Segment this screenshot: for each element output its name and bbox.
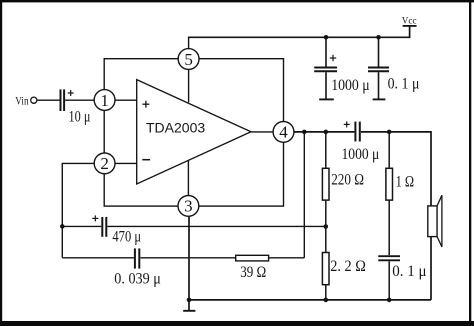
junction dot output riser xyxy=(302,130,307,135)
wire 220 branch upper xyxy=(325,132,327,168)
svg-text:1 Ω: 1 Ω xyxy=(396,173,414,191)
ground bar under C1 xyxy=(319,98,334,100)
wire C1 lower lead xyxy=(325,72,327,98)
input terminal circle xyxy=(31,97,37,103)
junction dot R220 R2.2 tee xyxy=(324,224,329,229)
plus sign C3 xyxy=(68,90,74,96)
wire riser to output row xyxy=(303,132,305,258)
svg-text:5: 5 xyxy=(184,50,193,69)
wire 470u row left xyxy=(62,225,101,227)
speaker cone xyxy=(437,195,442,247)
border bottom band xyxy=(0,321,474,326)
wire op-amp bottom edge to pin3 xyxy=(187,161,189,196)
border right xyxy=(469,0,471,326)
wire speaker bottom lead xyxy=(430,237,432,300)
wire C1 branch from rail xyxy=(325,37,327,66)
capacitor C2 0.1u plates xyxy=(368,68,389,72)
capacitor C7 0.1u plates xyxy=(378,256,400,260)
wire 1ohm branch upper xyxy=(388,132,390,168)
resistor R2.2 body xyxy=(322,253,329,285)
wire R2.2 to bottom row xyxy=(325,285,327,300)
svg-text:220 Ω: 220 Ω xyxy=(331,172,364,189)
pin circle 4 xyxy=(273,121,294,142)
capacitor C1 1000u plates xyxy=(314,68,337,72)
wire R1ohm to C7 xyxy=(388,200,390,255)
svg-text:1: 1 xyxy=(100,91,109,110)
speaker body rectangle xyxy=(428,206,437,237)
junction dot bottom 2.2 xyxy=(324,298,329,303)
capacitor C4 470u plates xyxy=(102,217,106,237)
svg-text:2: 2 xyxy=(100,154,109,173)
wire C6 to speaker corner xyxy=(361,132,431,206)
wire node2 to op-amp minus xyxy=(115,162,137,164)
pin circle 1 xyxy=(94,90,115,111)
wire C5 to R39 xyxy=(140,257,235,259)
junction dot feedback tee xyxy=(60,224,65,229)
wire output row apex to node4 xyxy=(251,131,273,133)
wire C7 to bottom row xyxy=(388,261,390,300)
svg-text:TDA2003: TDA2003 xyxy=(146,120,205,136)
resistor R39 body xyxy=(236,255,269,261)
plus input sign xyxy=(142,101,149,108)
wire Vin to C3 xyxy=(37,99,60,101)
resistor R220 body xyxy=(322,168,329,200)
wire 0.039u row left xyxy=(62,257,134,259)
wire node4 to C6 xyxy=(294,131,355,133)
svg-text:3: 3 xyxy=(184,197,193,216)
junction dot output 220 branch xyxy=(324,130,329,135)
wire bottom ground row xyxy=(189,299,431,301)
wire top supply rail with corner to Vcc xyxy=(188,26,410,37)
svg-text:Vin: Vin xyxy=(15,94,29,107)
capacitor C3 10u plates xyxy=(61,89,65,111)
ground bar under node3 xyxy=(183,310,195,312)
border left xyxy=(0,0,2,326)
wire 470u row right to R junction xyxy=(107,225,325,227)
minus input sign xyxy=(142,159,150,161)
svg-text:470 μ: 470 μ xyxy=(112,228,141,246)
svg-text:0. 1 μ: 0. 1 μ xyxy=(392,263,426,281)
op-amp U1 triangle xyxy=(137,80,251,184)
svg-text:1000 μ: 1000 μ xyxy=(342,146,380,163)
wire pin5 to op-amp top edge xyxy=(188,69,190,102)
wire C2 lower lead xyxy=(378,72,380,98)
plus sign C1 xyxy=(330,55,336,61)
junction dot rail C2 xyxy=(376,35,381,40)
wire C2 branch from rail xyxy=(378,37,380,66)
junction dot rail C1 xyxy=(324,35,329,40)
svg-text:1000 μ: 1000 μ xyxy=(331,77,370,94)
capacitor C5 0.039u plates xyxy=(135,248,139,268)
wire node3 riser down xyxy=(188,216,190,310)
border top xyxy=(0,0,474,2)
wire node1 to op-amp plus xyxy=(115,99,137,101)
resistor R1ohm body xyxy=(386,168,393,200)
IC outline box xyxy=(104,59,283,206)
junction dot bottom node3 xyxy=(187,298,192,303)
plus sign C6 xyxy=(344,121,350,127)
pin circle 5 xyxy=(178,49,199,70)
capacitor C6 1000u output plates xyxy=(355,122,359,142)
svg-text:4: 4 xyxy=(279,123,288,142)
pin circle 3 xyxy=(178,196,199,217)
wire pin5 riser to rail xyxy=(188,37,190,49)
svg-text:10 μ: 10 μ xyxy=(69,108,91,126)
ground bar under C2 xyxy=(373,98,386,100)
svg-text:0. 1 μ: 0. 1 μ xyxy=(388,76,420,93)
pin circle 2 xyxy=(94,153,115,174)
svg-text:0. 039 μ: 0. 039 μ xyxy=(114,271,161,288)
junction dot output 1ohm branch xyxy=(387,130,392,135)
junction dot bottom 0.1u xyxy=(387,298,392,303)
wire node2 left and down feedback xyxy=(62,163,94,257)
svg-text:39 Ω: 39 Ω xyxy=(240,264,266,282)
svg-text:Vcc: Vcc xyxy=(402,16,417,26)
Vcc terminal bar xyxy=(403,25,417,27)
plus sign C4 xyxy=(92,215,98,221)
wire R220 to R2.2 xyxy=(325,200,327,252)
svg-text:2. 2 Ω: 2. 2 Ω xyxy=(330,258,366,276)
wire C3 to node1 xyxy=(65,99,94,101)
wire R39 to riser xyxy=(269,257,305,259)
